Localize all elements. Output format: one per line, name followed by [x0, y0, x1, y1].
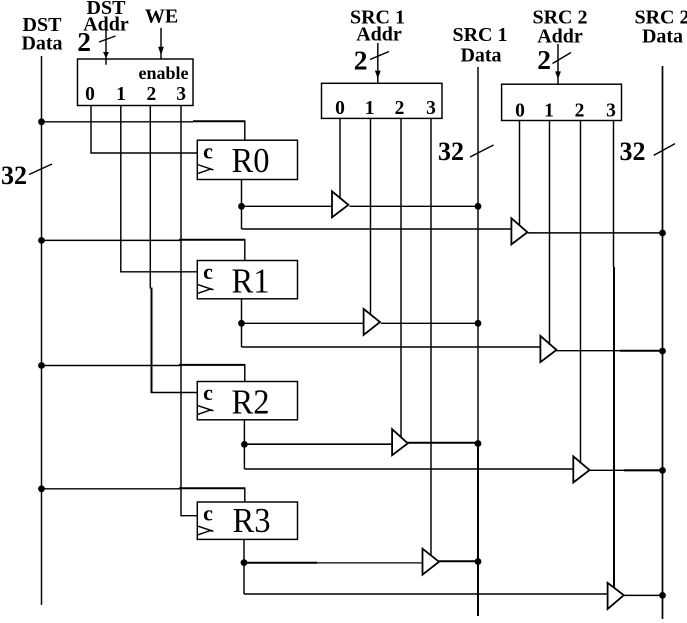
- svg-text:R3: R3: [233, 501, 271, 540]
- wire SRC2 decoder out 1 to buffer: [549, 121, 551, 346]
- wire R1 output drop: [241, 299, 243, 347]
- bus SRC 1 Data (vertical): [477, 67, 479, 616]
- wire SRC1 decoder out 1 to buffer: [370, 118, 372, 315]
- junction dot R2 out: [241, 441, 248, 448]
- svg-text:Data: Data: [21, 33, 62, 55]
- tri-state buffer R3-SRC1: [423, 549, 440, 575]
- svg-text:32: 32: [1, 161, 27, 190]
- node SRC 1 Addr label: [350, 7, 405, 46]
- junction dot DST-R3: [38, 485, 45, 492]
- node SRC 1 Data label: [452, 24, 507, 67]
- decoder U1 DST address decoder: [78, 59, 194, 106]
- register R3: [197, 501, 297, 541]
- svg-text:R2: R2: [232, 382, 270, 421]
- wire R1 to SRC1 buffer row: [242, 322, 364, 324]
- wire R0 to SRC1 buffer row: [242, 205, 333, 207]
- register R2: [197, 380, 297, 421]
- wire R0 buffer to SRC2 bus: [527, 232, 662, 234]
- wire SRC2 decoder out 3 to buffer: [613, 121, 616, 589]
- svg-text:2: 2: [147, 84, 157, 105]
- decoder U2 SRC1 address decoder: [322, 83, 443, 119]
- svg-text:enable: enable: [138, 63, 188, 83]
- junction dot DST-R2: [38, 362, 45, 369]
- junction dot SRC2-R2: [659, 467, 666, 474]
- svg-text:32: 32: [620, 137, 646, 166]
- decoder U3 SRC2 address decoder: [502, 84, 622, 121]
- tri-state buffer R1-SRC1: [364, 309, 380, 335]
- svg-text:0: 0: [85, 84, 95, 105]
- svg-text:1: 1: [116, 84, 126, 105]
- tri-state buffer R0-SRC2: [511, 218, 527, 244]
- svg-text:1: 1: [544, 100, 554, 121]
- wire DST decoder out 3 to R3 clock: [181, 106, 197, 516]
- svg-text:Addr: Addr: [356, 24, 402, 46]
- tri-state buffer R2-SRC2: [573, 456, 589, 482]
- junction dot DST-R1: [38, 237, 45, 244]
- wire R0 output drop: [241, 180, 243, 230]
- wire DST Addr arrow: [103, 31, 109, 65]
- wire R3 to SRC1 buffer row: [244, 562, 317, 564]
- bus SRC 2 Data (vertical): [662, 66, 664, 619]
- wire R2 to SRC2 buffer row: [244, 468, 573, 470]
- junction dot SRC1-R2: [475, 440, 482, 447]
- wire SRC1 decoder out 0 to buffer: [339, 118, 341, 199]
- tri-state buffer R0-SRC1: [332, 191, 348, 217]
- wire WE arrow: [158, 28, 164, 59]
- wire R2 to SRC1 buffer row: [244, 443, 392, 445]
- svg-text:3: 3: [426, 98, 436, 119]
- svg-text:c: c: [203, 139, 213, 164]
- junction dot SRC1-R0: [475, 203, 482, 210]
- junction dot SRC1-R1: [475, 320, 482, 327]
- bus slash SRC1 Data: [470, 145, 494, 157]
- svg-text:c: c: [203, 380, 213, 405]
- svg-text:Data: Data: [642, 26, 683, 48]
- bus slash SRC2 Addr: [553, 53, 572, 64]
- node SRC 2 Data label: [634, 7, 687, 48]
- svg-text:2: 2: [575, 100, 585, 121]
- register R0: [197, 139, 297, 180]
- junction dot R3 out: [241, 559, 248, 566]
- tri-state buffer R3-SRC2: [608, 583, 624, 609]
- wire R3 buffer to SRC2 bus: [624, 594, 663, 596]
- bus slash DST Data: [29, 164, 52, 175]
- svg-text:c: c: [203, 501, 213, 526]
- wire SRC1 decoder out 3 to buffer: [430, 118, 432, 555]
- wire R1 buffer to SRC2 bus: [557, 350, 663, 352]
- wire SRC2 decoder out 0 to buffer: [519, 121, 521, 226]
- svg-text:Data: Data: [460, 45, 501, 67]
- wire DST decoder out 0 to R0 clock: [91, 106, 197, 154]
- bus slash SRC2 Data: [654, 144, 675, 156]
- bus slash DST Addr: [99, 36, 116, 42]
- wire DST decoder out 2 to R2 clock: [150, 106, 197, 394]
- svg-text:1: 1: [365, 98, 375, 119]
- svg-text:WE: WE: [145, 6, 178, 28]
- junction dot SRC2-R1: [659, 348, 666, 355]
- tri-state buffer R1-SRC2: [540, 336, 556, 362]
- svg-text:R1: R1: [232, 261, 270, 300]
- wire R3 buffer to SRC1 bus: [439, 560, 478, 562]
- wire DST data to R0 input: [42, 121, 246, 140]
- junction dot SRC2-R3: [659, 592, 666, 599]
- svg-text:32: 32: [438, 137, 464, 166]
- wire R0 to SRC2 buffer row: [242, 228, 512, 230]
- node SRC 2 Addr label: [532, 7, 587, 48]
- wire R0 buffer to SRC1 bus: [350, 205, 479, 207]
- svg-text:3: 3: [176, 84, 186, 105]
- register R1: [197, 259, 297, 300]
- wire R1 to SRC2 buffer row: [242, 346, 541, 348]
- bus DST Data (vertical): [41, 56, 43, 605]
- svg-text:c: c: [203, 259, 213, 284]
- junction dot SRC2-R0: [659, 230, 666, 237]
- node DST Addr label: [83, 0, 129, 36]
- wire R1 buffer to SRC1 bus: [381, 322, 478, 324]
- svg-text:SRC 1: SRC 1: [452, 24, 507, 46]
- wire SRC1 decoder out 2 to buffer: [400, 118, 402, 437]
- wire R3 output drop: [243, 539, 245, 594]
- svg-text:3: 3: [606, 100, 616, 121]
- junction dot SRC1-R3: [475, 558, 482, 565]
- svg-text:2: 2: [395, 98, 405, 119]
- wire R3 to SRC2 buffer row: [244, 593, 608, 595]
- wire SRC2 Addr arrow: [555, 44, 561, 84]
- svg-text:0: 0: [515, 100, 525, 121]
- wire DST decoder out 1 to R1 clock: [121, 106, 198, 272]
- junction dot DST-R0: [38, 118, 45, 125]
- wire DST data to R2 input: [42, 365, 246, 382]
- svg-text:2: 2: [354, 44, 368, 75]
- wire DST data to R3 input: [42, 488, 246, 502]
- wire DST data to R1 input: [42, 240, 246, 261]
- wire SRC2 decoder out 2 to buffer: [580, 121, 582, 464]
- node DST Data label: [21, 14, 62, 55]
- wire R2 output drop: [243, 420, 245, 469]
- svg-text:0: 0: [335, 98, 345, 119]
- wire SRC1 Addr arrow: [375, 43, 381, 83]
- svg-text:2: 2: [77, 26, 91, 57]
- wire R2 buffer to SRC2 bus: [590, 469, 663, 471]
- bus slash SRC1 Addr: [370, 52, 389, 60]
- wire R2 buffer to SRC1 bus: [408, 442, 478, 444]
- junction dot R1 out: [238, 320, 245, 327]
- tri-state buffer R2-SRC1: [392, 429, 408, 455]
- svg-text:2: 2: [537, 44, 551, 75]
- svg-text:R0: R0: [232, 141, 270, 180]
- junction dot R0 out: [238, 203, 245, 210]
